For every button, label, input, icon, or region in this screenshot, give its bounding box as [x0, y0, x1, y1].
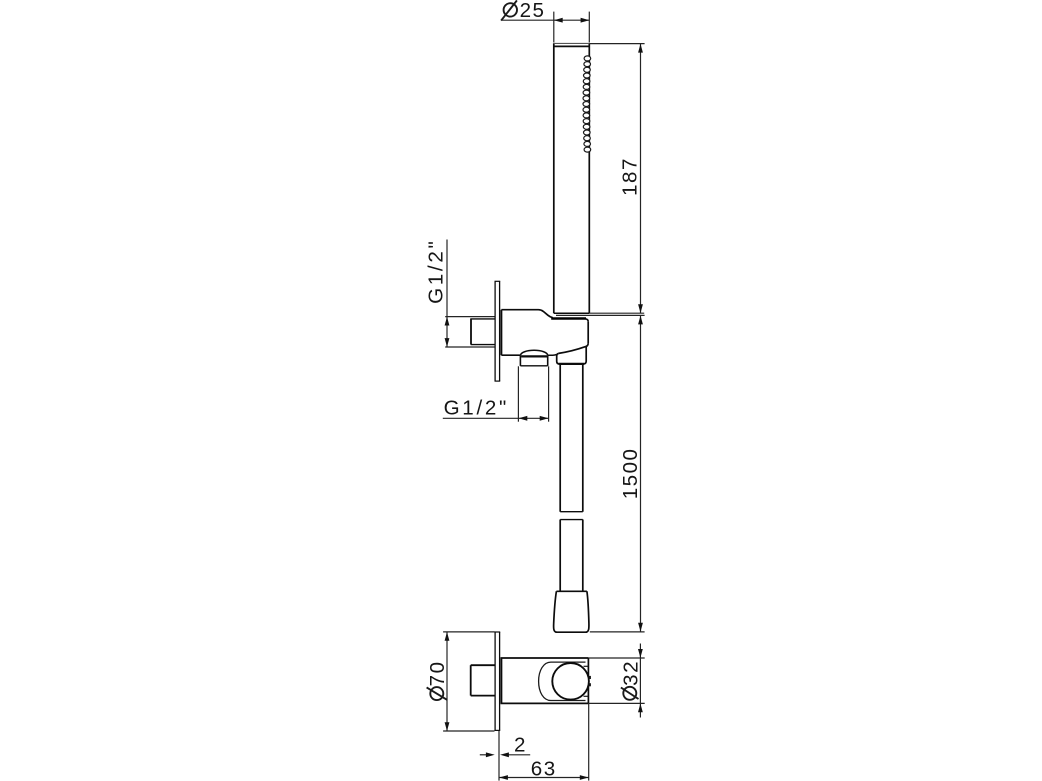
svg-text:25: 25	[520, 0, 546, 22]
dimension 2	[480, 731, 530, 758]
bottom view: wall flange	[495, 632, 501, 730]
arrow Ø70 bottom	[445, 722, 450, 731]
arrow Ø70 top	[445, 632, 450, 641]
hand shower cylinder	[554, 43, 590, 313]
svg-text:32: 32	[620, 660, 643, 686]
dimension Ø70	[443, 632, 494, 731]
arrow 1500 bottom	[638, 623, 643, 632]
extension line 187 top	[589, 43, 644, 45]
spray nozzles	[583, 56, 591, 152]
arrow 63 right	[580, 775, 589, 780]
outlet boss under bracket	[520, 350, 547, 366]
shower hose upper segment	[560, 365, 583, 512]
bottom view: knob circle	[552, 663, 589, 700]
arrow Ø25 left	[554, 18, 563, 23]
arrow 1500 top	[638, 316, 643, 325]
label Ø70 symbol	[427, 687, 447, 700]
bottom view: clip tabs	[588, 676, 591, 679]
bracket body outline	[501, 310, 588, 356]
hose outlet cup	[557, 347, 587, 364]
label Ø25 symbol	[501, 0, 517, 20]
bottom view: body	[501, 658, 589, 703]
arrow 63 left	[499, 775, 508, 780]
dimension line 1500	[640, 316, 642, 632]
arrow 2 left	[486, 752, 495, 757]
svg-text:63: 63	[531, 757, 557, 780]
arrow G1/2 bottom left	[519, 416, 528, 421]
dimension 63	[499, 704, 589, 781]
arrow 187 bottom	[638, 304, 643, 313]
bracket cup rim (thick)	[551, 317, 586, 320]
arrow Ø25 right	[581, 18, 590, 23]
bottom view: side lines	[584, 665, 589, 667]
arrow 187 top	[638, 44, 643, 53]
dimension line 187	[640, 44, 642, 313]
extension line 1500 bottom	[590, 631, 645, 633]
svg-text:187: 187	[619, 157, 642, 196]
arrow G1/2 top up	[445, 317, 450, 326]
bottom view: wall nipple	[471, 665, 495, 695]
svg-text:1500: 1500	[619, 447, 642, 499]
svg-text:70: 70	[426, 660, 449, 686]
bottom view: recess capsule	[539, 662, 586, 700]
dimension Ø32	[588, 644, 644, 718]
shower hose lower segment	[560, 520, 583, 592]
dimension line G1/2 bottom	[443, 366, 549, 421]
dimension line Ø25	[502, 12, 589, 43]
extension line nipple top	[445, 316, 494, 318]
extension line 187 bottom	[589, 312, 644, 314]
arrow Ø32 bottom	[638, 704, 643, 713]
svg-text:G1/2": G1/2"	[425, 238, 448, 303]
arrow G1/2 top down	[445, 338, 450, 347]
svg-text:2: 2	[514, 734, 527, 757]
dimension line G1/2 top	[446, 240, 448, 348]
extension line 1500 top	[556, 314, 645, 316]
arrow G1/2 bottom right	[540, 416, 549, 421]
hose cone end	[554, 591, 589, 632]
svg-text:G1/2": G1/2"	[444, 397, 509, 420]
wall flange top	[495, 281, 501, 381]
extension line nipple bottom	[445, 346, 494, 348]
label Ø32 symbol	[621, 687, 639, 700]
arrow Ø32 top	[638, 649, 643, 658]
wall nipple top (threaded stub)	[471, 319, 495, 345]
arrow 2 right	[500, 752, 509, 757]
